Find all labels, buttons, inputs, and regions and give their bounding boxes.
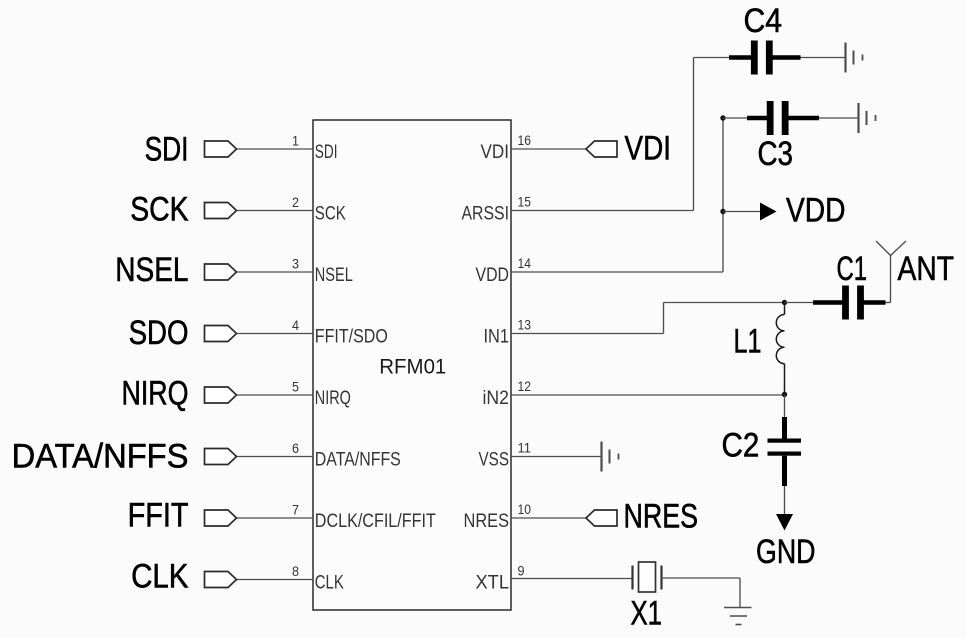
svg-text:14: 14 bbox=[518, 256, 532, 271]
svg-text:iN2: iN2 bbox=[483, 388, 510, 409]
svg-text:C4: C4 bbox=[744, 2, 783, 40]
svg-text:SDO: SDO bbox=[129, 314, 189, 352]
svg-text:1: 1 bbox=[292, 134, 299, 149]
svg-text:VSS: VSS bbox=[479, 450, 510, 471]
svg-text:DATA/NFFS: DATA/NFFS bbox=[12, 438, 189, 476]
svg-text:12: 12 bbox=[518, 379, 532, 394]
svg-text:VDD: VDD bbox=[476, 265, 510, 286]
svg-text:ARSSI: ARSSI bbox=[462, 204, 510, 225]
svg-text:16: 16 bbox=[518, 133, 532, 148]
svg-text:NIRQ: NIRQ bbox=[315, 388, 351, 409]
svg-text:L1: L1 bbox=[734, 323, 762, 361]
svg-text:CLK: CLK bbox=[131, 557, 188, 595]
svg-text:7: 7 bbox=[292, 503, 299, 518]
svg-text:GND: GND bbox=[756, 533, 816, 571]
svg-text:5: 5 bbox=[292, 380, 299, 395]
svg-text:SCK: SCK bbox=[315, 204, 346, 225]
svg-text:13: 13 bbox=[518, 318, 532, 333]
svg-text:NIRQ: NIRQ bbox=[122, 375, 189, 413]
svg-text:SDI: SDI bbox=[315, 142, 338, 163]
svg-text:4: 4 bbox=[292, 318, 299, 333]
svg-text:C1: C1 bbox=[837, 250, 868, 288]
svg-text:SDI: SDI bbox=[145, 130, 189, 168]
svg-text:FFIT/SDO: FFIT/SDO bbox=[315, 327, 388, 348]
svg-text:3: 3 bbox=[292, 257, 299, 272]
svg-text:C3: C3 bbox=[758, 135, 794, 173]
svg-text:SCK: SCK bbox=[130, 191, 188, 229]
svg-text:FFIT: FFIT bbox=[128, 497, 189, 535]
svg-text:9: 9 bbox=[518, 564, 525, 579]
svg-text:VDI: VDI bbox=[481, 142, 510, 163]
svg-text:RFM01: RFM01 bbox=[379, 354, 446, 378]
svg-text:NRES: NRES bbox=[624, 498, 699, 536]
svg-text:ANT: ANT bbox=[898, 250, 955, 288]
svg-text:DATA/NFFS: DATA/NFFS bbox=[315, 450, 401, 471]
svg-text:DCLK/CFIL/FFIT: DCLK/CFIL/FFIT bbox=[315, 511, 436, 532]
svg-text:NSEL: NSEL bbox=[315, 265, 353, 286]
svg-text:11: 11 bbox=[518, 441, 532, 456]
svg-text:2: 2 bbox=[292, 195, 299, 210]
svg-text:VDD: VDD bbox=[786, 192, 846, 230]
svg-text:VDI: VDI bbox=[625, 130, 672, 168]
svg-text:XTL: XTL bbox=[476, 573, 510, 594]
svg-text:CLK: CLK bbox=[315, 573, 344, 594]
svg-text:NSEL: NSEL bbox=[115, 251, 188, 289]
svg-text:X1: X1 bbox=[631, 595, 663, 633]
svg-text:C2: C2 bbox=[722, 427, 760, 465]
svg-text:6: 6 bbox=[292, 441, 299, 456]
svg-text:10: 10 bbox=[518, 502, 532, 517]
svg-text:8: 8 bbox=[292, 564, 299, 579]
svg-text:NRES: NRES bbox=[464, 511, 510, 532]
svg-text:15: 15 bbox=[518, 195, 532, 210]
svg-text:IN1: IN1 bbox=[484, 327, 510, 348]
